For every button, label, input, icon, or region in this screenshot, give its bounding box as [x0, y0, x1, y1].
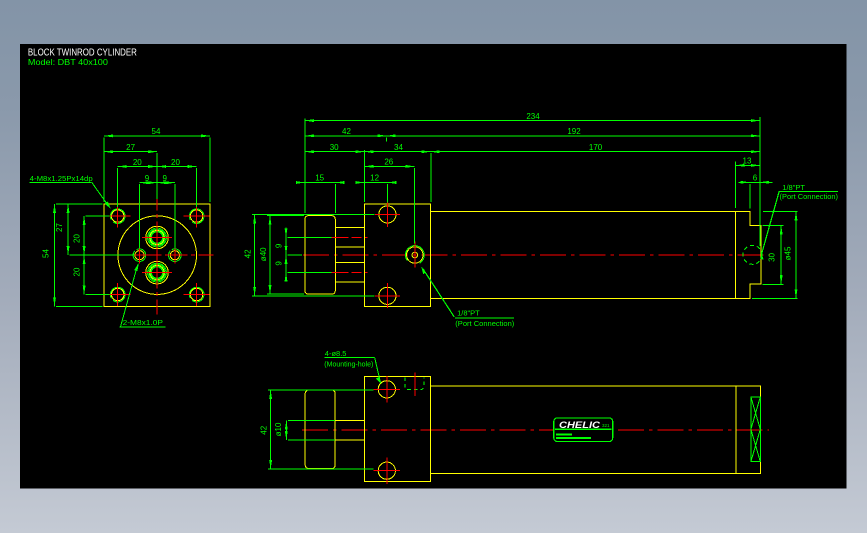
- rear cap outline with boss: [736, 212, 761, 299]
- dim 13: [736, 162, 760, 209]
- rod bottom edge: [335, 439, 364, 441]
- tube bottom line bottom view: [431, 472, 736, 474]
- port centerline vertical: [414, 373, 416, 396]
- svg-text:1/8"PT: 1/8"PT: [457, 308, 480, 317]
- tube top line bottom view: [431, 385, 736, 387]
- rod hidden centerline lower: [331, 271, 367, 273]
- dim 234: [305, 120, 760, 122]
- dim 9 9 top: [140, 183, 175, 249]
- dim 42 vertical: [252, 214, 375, 295]
- extension line rear end: [759, 117, 761, 246]
- dim 54 left: [55, 204, 103, 307]
- mounting hole bottom: [374, 457, 401, 484]
- leader port connection rear: [761, 191, 839, 259]
- leader 4-o8.5 mounting hole: [325, 357, 382, 384]
- cylinder tube bottom line: [431, 297, 736, 299]
- dim 26: [364, 166, 414, 243]
- rear cap joint line: [735, 212, 737, 299]
- rod hole top: [142, 225, 172, 251]
- horizontal centerline: [95, 254, 216, 256]
- svg-text:9: 9: [162, 174, 167, 183]
- leader 2-M8x1.0P: [120, 263, 166, 327]
- svg-text:54: 54: [152, 127, 161, 136]
- svg-text:42: 42: [244, 249, 253, 258]
- corner hole M8 bottom-right: [184, 283, 210, 306]
- leader port connection lower: [421, 266, 514, 318]
- svg-text:4-M8x1.25Px14dp: 4-M8x1.25Px14dp: [30, 174, 93, 183]
- dim 15: [296, 183, 344, 214]
- rod guide block bottom view: [305, 390, 335, 469]
- svg-text:42: 42: [260, 425, 269, 434]
- vertical centerline: [156, 196, 158, 316]
- hidden port semicircle: [405, 377, 424, 389]
- svg-text:1/8"PT: 1/8"PT: [782, 183, 805, 192]
- svg-text:9: 9: [275, 261, 284, 266]
- svg-text:13: 13: [743, 157, 752, 166]
- tap hole M8 right: [166, 247, 183, 264]
- svg-text:20: 20: [133, 158, 142, 167]
- svg-text:234: 234: [526, 112, 540, 121]
- svg-text:192: 192: [567, 127, 581, 136]
- rod guide block: [305, 216, 335, 295]
- corner hole M8 top-left: [105, 205, 131, 228]
- bottom centerline: [302, 429, 769, 431]
- flange block side view: [364, 204, 430, 307]
- svg-text:ø45: ø45: [783, 246, 792, 260]
- svg-text:6: 6: [753, 174, 758, 183]
- rod hole bottom: [142, 260, 172, 286]
- dim 34: [364, 151, 430, 153]
- cylinder tube top line: [431, 211, 736, 213]
- dim 20 20 top: [118, 167, 197, 208]
- flange block bottom view: [364, 377, 430, 482]
- extension line block left: [304, 119, 306, 214]
- dim 9 9 vertical: [286, 228, 331, 282]
- svg-text:Model: DBT 40x100: Model: DBT 40x100: [28, 57, 108, 67]
- dim 30: [305, 151, 364, 153]
- svg-text:34: 34: [394, 143, 403, 152]
- svg-text:54: 54: [42, 249, 51, 258]
- dim o10 bottom view: [286, 420, 335, 440]
- dim o45 vertical rear: [752, 211, 798, 298]
- svg-text:26: 26: [384, 158, 393, 167]
- extension line flange left: [363, 150, 365, 202]
- dim 6: [739, 182, 773, 208]
- dim 27 left: [68, 204, 134, 255]
- dim 27 top: [104, 152, 157, 199]
- drawing canvas: [20, 44, 847, 488]
- dim 170: [431, 151, 760, 153]
- svg-text:42: 42: [342, 127, 351, 136]
- svg-text:ø40: ø40: [259, 247, 268, 261]
- main centerline: [303, 254, 770, 256]
- rod upper edge lines: [335, 227, 364, 229]
- dim 20 20 left: [84, 216, 109, 295]
- dim 12: [355, 183, 396, 203]
- rod hidden centerline upper: [331, 236, 367, 238]
- rear port cross hatch: [751, 397, 760, 462]
- svg-text:9: 9: [145, 174, 150, 183]
- corner hole M8 bottom-left: [105, 283, 131, 306]
- leader 4-M8x1.25Px14dp: [30, 182, 111, 209]
- svg-text:ø10: ø10: [274, 422, 283, 436]
- tap hole M8 left: [131, 247, 148, 264]
- extension line flange right: [430, 153, 432, 202]
- rear cap bottom view: [736, 386, 761, 473]
- svg-text:(Port Connection): (Port Connection): [780, 194, 839, 201]
- flange hole bottom: [375, 283, 400, 308]
- svg-text:9: 9: [275, 243, 284, 248]
- hidden port circle rear: [743, 245, 762, 264]
- rod lower edge lines: [335, 262, 364, 264]
- svg-text:2-M8x1.0P: 2-M8x1.0P: [123, 318, 163, 327]
- svg-text:12: 12: [370, 174, 379, 183]
- svg-text:20: 20: [73, 234, 82, 243]
- flange hole top: [375, 202, 400, 227]
- svg-text:30: 30: [768, 252, 777, 261]
- svg-text:4-ø8.5: 4-ø8.5: [325, 349, 347, 358]
- port boss circle: [405, 242, 424, 268]
- svg-text:20: 20: [171, 158, 180, 167]
- CHELIC logo: [554, 418, 613, 442]
- svg-text:27: 27: [55, 223, 64, 232]
- svg-text:20: 20: [73, 267, 82, 276]
- corner hole M8 top-right: [184, 205, 210, 228]
- svg-text:30: 30: [330, 143, 339, 152]
- flange square outline: [104, 204, 210, 307]
- dim 42 horizontal: [305, 135, 387, 137]
- rod top edge: [335, 419, 364, 421]
- bore circle ø40: [118, 216, 197, 295]
- dim 54 top: [104, 136, 210, 202]
- dim 192: [387, 136, 760, 142]
- svg-text:15: 15: [315, 174, 324, 183]
- svg-text:(Mounting-hole): (Mounting-hole): [324, 361, 373, 368]
- svg-text:27: 27: [126, 143, 135, 152]
- dim 42 bottom view: [268, 390, 374, 469]
- svg-text:170: 170: [589, 143, 603, 152]
- dim o40 vertical: [267, 216, 304, 295]
- svg-text:321: 321: [602, 423, 610, 428]
- dim 30 vertical rear: [763, 226, 784, 285]
- mounting hole top: [374, 376, 401, 403]
- svg-text:(Port Connection): (Port Connection): [455, 321, 514, 328]
